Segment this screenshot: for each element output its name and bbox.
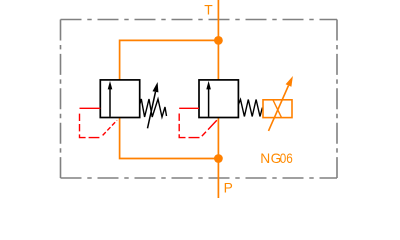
valve V2 pilot line (red dashed) bbox=[179, 108, 217, 137]
wire: main vertical T-P line bbox=[217, 0, 219, 198]
svg-text:N: N bbox=[260, 151, 270, 166]
wire: left branch (top rail, left vertical, bottom rail) bbox=[120, 40, 219, 158]
junction node top bbox=[214, 36, 223, 45]
enclosure dashed border right bbox=[336, 20, 338, 179]
enclosure dashed border left bbox=[60, 20, 62, 179]
valve V2 spring bbox=[238, 100, 262, 117]
svg-text:0: 0 bbox=[280, 150, 287, 166]
proportional solenoid box bbox=[263, 100, 292, 118]
svg-text:P: P bbox=[224, 181, 233, 196]
svg-text:6: 6 bbox=[286, 150, 293, 166]
valve V1 flow arrow bbox=[109, 89, 111, 117]
valve V2 body bbox=[199, 80, 238, 118]
valve V1 pilot line (red dashed) bbox=[80, 108, 118, 137]
valve V1 adjustment arrow bbox=[148, 92, 156, 129]
enclosure dashed border top bbox=[61, 19, 338, 21]
enclosure dashed border bottom bbox=[61, 177, 338, 179]
junction node bottom bbox=[214, 154, 223, 163]
valve V1 body bbox=[100, 80, 139, 118]
valve V1 spring bbox=[140, 99, 167, 117]
valve V2 flow arrow bbox=[208, 89, 210, 117]
svg-text:T: T bbox=[204, 3, 213, 18]
proportional control arrow bbox=[269, 86, 289, 131]
proportional solenoid inner diagonal bbox=[273, 100, 282, 118]
